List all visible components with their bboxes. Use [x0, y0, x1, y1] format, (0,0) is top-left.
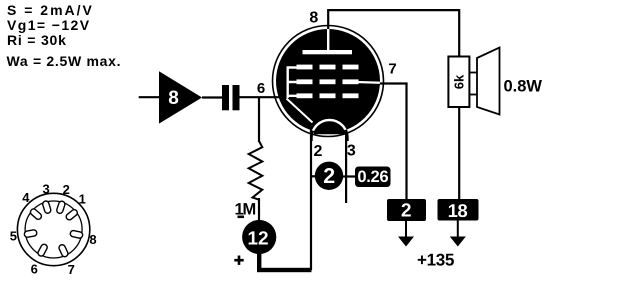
wire grid node down [258, 97, 260, 142]
resistor R 1M zigzag [249, 141, 263, 200]
svg-text:6k: 6k [452, 74, 467, 89]
cathode meter stub left [310, 175, 316, 177]
svg-text:6: 6 [31, 261, 38, 276]
capacitor coupling [222, 85, 240, 110]
wire bottom thick horizontal [257, 268, 312, 272]
value box 18 [438, 199, 479, 221]
anode bar [303, 50, 353, 54]
socket pin 4 [29, 208, 43, 221]
anode connection white [327, 29, 329, 51]
value box 2 [387, 199, 426, 221]
internal diagonal to cathode [287, 99, 313, 123]
svg-text:3: 3 [42, 181, 49, 196]
loudspeaker 6k [448, 57, 469, 108]
svg-text:8: 8 [89, 232, 96, 247]
svg-text:5: 5 [10, 228, 17, 243]
wire anode top [328, 10, 459, 57]
svg-text:1: 1 [79, 192, 86, 207]
wire triangle to capacitor [202, 96, 222, 98]
svg-text:S = 2mA/V: S = 2mA/V [7, 2, 94, 18]
cathode dome black outside [312, 120, 348, 141]
supply arrow left [398, 221, 414, 247]
svg-text:Wa = 2.5W max.: Wa = 2.5W max. [7, 53, 122, 69]
svg-text:8: 8 [168, 88, 179, 109]
cathode pin 2 lead [310, 126, 312, 270]
socket pin 3 [42, 200, 52, 214]
cathode current meter 2 [315, 162, 343, 190]
svg-text:Vg1= −12V: Vg1= −12V [7, 17, 90, 33]
svg-text:3: 3 [347, 143, 356, 160]
svg-text:0.8W: 0.8W [504, 78, 543, 96]
svg-text:Ri = 30k: Ri = 30k [7, 32, 67, 48]
socket pin 7 [58, 244, 69, 258]
wire speaker down [458, 107, 460, 199]
socket pin 2 [56, 200, 66, 214]
socket inner circle [25, 201, 82, 258]
speaker horn [469, 48, 499, 115]
label +135 [418, 254, 454, 266]
wire resistor to battery [258, 198, 260, 221]
grid row1 dashes [297, 65, 359, 70]
cathode dome interior fill [314, 110, 345, 134]
wire battery down thick [257, 253, 261, 272]
svg-text:2: 2 [63, 182, 70, 197]
screen pin 7 wire [378, 82, 408, 84]
svg-text:4: 4 [22, 190, 30, 205]
svg-text:2: 2 [314, 143, 323, 160]
grid row3 dashes [297, 93, 359, 98]
svg-text:7: 7 [68, 262, 75, 277]
tube outer envelope circle [273, 26, 384, 137]
supply arrow right [450, 221, 466, 247]
wire input left [139, 96, 159, 98]
grid side bracket white [288, 68, 297, 99]
svg-text:8: 8 [309, 10, 318, 27]
socket pin 6 [37, 243, 48, 257]
socket outer circle [17, 193, 89, 265]
svg-text:7: 7 [388, 61, 396, 78]
cathode dome white inside [312, 120, 348, 141]
socket pin 5 [24, 229, 37, 237]
wire screen down [405, 84, 407, 200]
anode pin 8 lead [327, 9, 329, 31]
battery meter 12 [242, 220, 276, 254]
label 1M [236, 203, 256, 214]
value box 0.26 [355, 167, 391, 188]
amplifier stage triangle 8 [159, 71, 202, 123]
tube internal electrodes [287, 29, 382, 141]
grid row2 dashes [297, 79, 359, 84]
socket pin 8 [70, 230, 84, 239]
tube envelope disc [276, 29, 380, 133]
svg-text:6: 6 [257, 80, 265, 97]
cathode meter stub right [342, 175, 356, 177]
screen connection white [356, 81, 381, 84]
cathode pin 3 lead [345, 126, 347, 203]
socket pin 1 [65, 208, 79, 221]
minus sign [238, 216, 245, 219]
wire capacitor to tube grid pin 6 [240, 96, 282, 98]
plus sign [234, 256, 243, 265]
